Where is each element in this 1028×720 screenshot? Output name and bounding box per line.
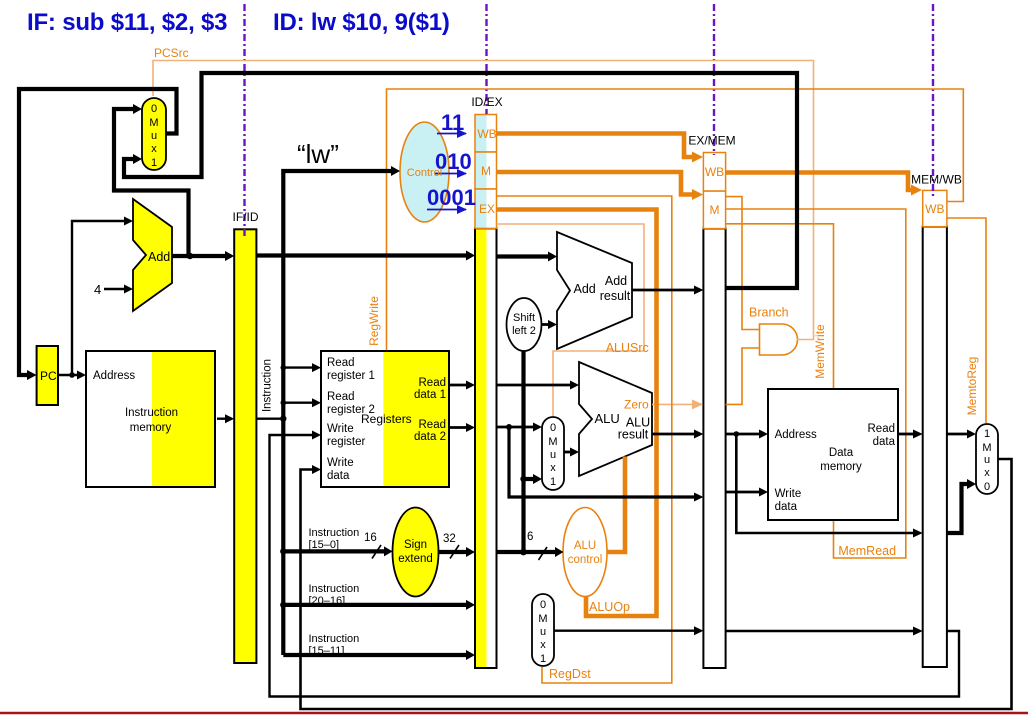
wire Add output PC+4 to IF/ID (thick) [172, 251, 234, 261]
svg-text:memory: memory [130, 422, 172, 434]
labels ALUSrc mux [548, 422, 557, 488]
svg-text:1: 1 [540, 653, 546, 665]
svg-text:u: u [540, 626, 546, 638]
junction sign extend row node [520, 549, 527, 556]
label EX box ID/EX [479, 202, 495, 216]
label Instruction (vertical) [262, 359, 274, 412]
svg-text:WB: WB [925, 202, 944, 216]
svg-text:Add: Add [605, 274, 627, 288]
svg-text:u: u [984, 454, 990, 466]
wire sign extend value up to shift left 2 (thick) [521, 351, 525, 552]
svg-text:memory: memory [820, 461, 862, 473]
svg-text:0001: 0001 [427, 185, 476, 210]
wire read register 1 [283, 363, 321, 372]
IF/ID pipeline register [234, 229, 256, 663]
svg-text:Instruction: Instruction [309, 527, 360, 539]
svg-text:Data: Data [829, 447, 854, 459]
svg-text:Address: Address [775, 429, 817, 441]
label Address (instruction memory) [93, 370, 135, 382]
junction PC output node [69, 372, 75, 378]
label PCSrc [154, 46, 189, 60]
svg-text:IF/ID: IF/ID [233, 210, 259, 224]
label ALUOp [589, 600, 630, 614]
junction instruction bus 15-0 [280, 548, 286, 554]
svg-text:register: register [327, 436, 366, 448]
control unit oval [400, 122, 449, 222]
label MEM/WB [911, 173, 962, 187]
svg-text:u: u [550, 449, 556, 461]
wire PC value up to Add input [72, 217, 133, 376]
wire Zero flag ALU to EX/MEM (pale) [652, 403, 702, 405]
junction ALU result node [734, 431, 740, 437]
svg-text:11: 11 [441, 110, 464, 135]
svg-text:Registers: Registers [361, 412, 412, 426]
svg-text:MEM/WB: MEM/WB [911, 173, 962, 187]
EX/MEM M control box [703, 191, 725, 229]
shift left 2 oval [507, 298, 542, 351]
label EX/MEM [688, 134, 735, 148]
svg-text:Write: Write [327, 457, 354, 469]
junction instruction bus read reg 1 [281, 365, 287, 371]
svg-text:RegDst: RegDst [549, 667, 591, 681]
wire instruction 15-11 to ID/EX (thick) [283, 650, 475, 660]
data memory block [768, 389, 898, 520]
main ALU [579, 362, 652, 476]
label 4 [94, 282, 101, 297]
svg-text:0: 0 [540, 599, 546, 611]
label WB box EX/MEM [705, 165, 724, 179]
label Branch [749, 306, 789, 320]
bus width slash 16 [372, 545, 381, 559]
label IF/ID [233, 210, 259, 224]
label Shift left 2 [512, 312, 536, 337]
PC+4 adder [133, 199, 172, 311]
svg-text:Shift: Shift [513, 312, 535, 324]
wire M control ID/EX to EX/MEM (thick orange, value 010) [497, 172, 704, 200]
net MemRead (EX/MEM M box to data memory bottom) [726, 209, 906, 558]
branch AND gate [760, 324, 798, 355]
svg-text:PC: PC [40, 369, 57, 383]
label WB box MEM/WB [925, 202, 944, 216]
wire instruction 20-16 to ID/EX (thick) [283, 600, 475, 610]
svg-text:0: 0 [984, 481, 990, 493]
label Control [407, 167, 442, 179]
net ALUSrc (pale, ID/EX EX box to ALUSrc mux) [497, 224, 645, 416]
label instruction 15-11 [309, 633, 360, 657]
svg-text:u: u [151, 130, 157, 142]
junction instruction bus 20-16 [280, 602, 286, 608]
wire EX/MEM write data to data memory [726, 488, 768, 497]
wire read data 2 to ID/EX [449, 423, 475, 432]
wire PC mux output feedback to PC (thick) [19, 89, 177, 380]
svg-text:RegWrite: RegWrite [367, 296, 381, 346]
bus width slash 32 [450, 545, 459, 559]
svg-text:0: 0 [550, 422, 556, 434]
svg-text:result: result [600, 289, 631, 303]
ID/EX M control box [475, 152, 497, 189]
svg-text:M: M [710, 203, 720, 217]
labels data memory [775, 423, 896, 513]
svg-text:x: x [550, 462, 556, 474]
svg-text:WB: WB [477, 127, 496, 141]
labels PC mux [149, 103, 158, 169]
control value 11 [441, 110, 464, 135]
svg-text:ID: lw $10, 9($1): ID: lw $10, 9($1) [273, 9, 450, 36]
EX/MEM WB control box [703, 153, 725, 192]
svg-text:Add: Add [148, 250, 170, 264]
label ID/EX [471, 95, 502, 109]
EX stage separator [713, 4, 715, 155]
junction instruction bus IF/ID tap [280, 416, 286, 422]
wire PC+4 ID/EX to branch adder (thick) [497, 252, 558, 262]
svg-text:Read: Read [419, 377, 447, 389]
svg-text:16: 16 [364, 532, 377, 544]
wire control value 11 into ID/EX WB (blue) [437, 133, 466, 135]
label Sign extend [398, 539, 433, 565]
IF stage separator (dash-dot purple) [243, 4, 245, 237]
svg-text:register 1: register 1 [327, 370, 375, 382]
wire WB control EX/MEM to MEM/WB (thick orange) [726, 173, 922, 196]
wire write register number feedback to registers [270, 431, 960, 697]
label ALUSrc [606, 341, 649, 355]
ID/EX pipeline register bar [475, 228, 497, 668]
label WB box ID/EX [477, 127, 496, 141]
net RegWrite (MEM/WB WB box to registers) [387, 89, 964, 350]
svg-text:MemRead: MemRead [838, 544, 896, 558]
sign extend oval [393, 508, 439, 597]
svg-text:Write: Write [327, 423, 354, 435]
wire MEM/WB ALU result to mux input 0 (thick) [947, 479, 976, 533]
svg-text:Read: Read [419, 419, 447, 431]
svg-text:x: x [984, 467, 990, 479]
svg-text:1: 1 [550, 476, 556, 488]
svg-text:left 2: left 2 [512, 325, 536, 337]
wire sign extend value ID/EX to ALU control (thick) with slash 6 [497, 547, 564, 557]
wire read register 2 [283, 398, 321, 407]
labels registers block [327, 357, 446, 482]
wire read data 2 ID/EX to ALUSrc mux input 0 [497, 423, 543, 432]
svg-text:Write: Write [775, 488, 802, 500]
instruction bus vertical (thick) [283, 166, 400, 655]
wire ALUSrc mux output to ALU [564, 448, 579, 457]
RegDst mux [532, 594, 554, 666]
svg-text:0: 0 [151, 103, 157, 115]
label RegDst [549, 667, 591, 681]
title ID instruction [273, 9, 450, 36]
svg-text:x: x [151, 143, 157, 155]
svg-text:Address: Address [93, 370, 135, 382]
ID/EX EX control box [475, 189, 497, 228]
svg-text:EX: EX [479, 202, 495, 216]
svg-text:PCSrc: PCSrc [154, 46, 189, 60]
registers block [321, 351, 449, 487]
svg-text:6: 6 [527, 531, 533, 543]
net ALUOp (thick orange, ID/EX EX box to ALU control) [497, 210, 657, 617]
labels RegDst mux [538, 599, 547, 665]
label lw annotation [297, 139, 339, 169]
wire instruction memory output to IF/ID [217, 414, 234, 423]
labels MemtoReg mux [982, 428, 991, 493]
svg-text:Read: Read [327, 357, 355, 369]
ALU control oval [563, 508, 607, 597]
svg-text:M: M [149, 117, 158, 129]
label Zero [624, 398, 649, 412]
svg-text:M: M [982, 442, 991, 454]
svg-text:Read: Read [868, 423, 896, 435]
wire sign extend output to ID/EX (thick) [439, 547, 476, 557]
svg-text:data: data [873, 436, 896, 448]
net PCSrc (pale, AND gate output to PC mux) [153, 61, 814, 340]
ID/EX WB control box [475, 115, 497, 153]
wire ALU result to EX/MEM [652, 430, 703, 439]
svg-text:EX/MEM: EX/MEM [688, 134, 735, 148]
wire control value 010 into ID/EX M (blue) [435, 173, 466, 175]
wire EX/MEM ALU result to data memory address [726, 430, 768, 439]
svg-text:Instruction: Instruction [125, 407, 178, 419]
svg-text:x: x [540, 639, 546, 651]
wire instruction 15-0 to sign extend (thick) [283, 546, 392, 556]
junction PC+4 node [187, 253, 193, 259]
wire PC+4 to PC mux input 0 (thick) [114, 104, 190, 256]
svg-text:ALU: ALU [574, 540, 596, 552]
junction read data 2 node [506, 424, 512, 430]
ALUSrc mux [542, 417, 564, 490]
svg-text:M: M [548, 436, 557, 448]
wire PC to instruction memory address [58, 371, 86, 380]
MEM/WB pipeline register bar [923, 227, 947, 667]
wire PC+4 IF/ID to ID/EX (thick) [256, 251, 475, 261]
svg-text:Instruction: Instruction [309, 583, 360, 595]
svg-text:MemtoReg: MemtoReg [965, 357, 979, 416]
label instruction 15-0 [309, 527, 360, 551]
svg-text:ALUSrc: ALUSrc [606, 341, 649, 355]
svg-text:1: 1 [984, 428, 990, 440]
label RegWrite (vertical) [367, 296, 381, 346]
wire read data 1 ID/EX to ALU [497, 381, 580, 390]
svg-text:Read: Read [327, 391, 355, 403]
svg-text:[15–0]: [15–0] [309, 539, 340, 551]
svg-text:extend: extend [398, 553, 433, 565]
wire MEM/WB read data to mux input 1 [947, 430, 976, 439]
svg-text:[15–11]: [15–11] [309, 645, 345, 657]
junction instruction bus read reg 2 [281, 400, 287, 406]
MemtoReg mux [976, 424, 998, 494]
PC source mux [142, 98, 166, 170]
svg-text:MemWrite: MemWrite [813, 324, 827, 379]
branch target adder (Add result) [557, 232, 632, 349]
wire control value 0001 into ID/EX EX (blue) [427, 209, 466, 211]
title IF instruction [27, 9, 227, 36]
label MemWrite (vertical) [813, 324, 827, 379]
svg-text:1: 1 [151, 157, 157, 169]
wire constant 4 into Add [104, 285, 133, 294]
wire shift left 2 output to branch adder [542, 320, 558, 329]
junction sign extend to mux node [520, 476, 526, 482]
wire sign extend value to ALUSrc mux input 1 (thick) [524, 474, 543, 484]
bottom red rule [0, 712, 1028, 714]
svg-text:Instruction: Instruction [262, 359, 274, 412]
EX/MEM pipeline register bar [703, 229, 725, 668]
wire data memory read data to MEM/WB [898, 430, 923, 439]
wire MemtoReg mux output feedback to registers write data [301, 459, 1012, 709]
wire ALU control output to ALU (thick orange) [607, 457, 625, 553]
net MemtoReg (MEM/WB WB box to mux) [947, 218, 986, 423]
bus width slash 6 [539, 547, 548, 560]
label ALU (adder) texts [574, 274, 631, 303]
svg-text:Zero: Zero [624, 398, 649, 412]
net MemWrite (EX/MEM M box to data memory top) [726, 224, 834, 388]
label MemtoReg (vertical) [965, 357, 979, 416]
instruction memory [86, 351, 215, 487]
ID stage separator [485, 4, 487, 114]
svg-text:ALUOp: ALUOp [589, 600, 630, 614]
control value 0001 [427, 185, 476, 210]
svg-text:M: M [538, 613, 547, 625]
svg-text:32: 32 [443, 533, 456, 545]
label ALU texts [595, 411, 651, 442]
svg-text:result: result [618, 428, 649, 442]
label 32 [443, 533, 456, 545]
label MemRead [838, 544, 896, 558]
MEM/WB WB control box [923, 190, 947, 226]
wire read data 2 down to EX/MEM write data [509, 427, 703, 502]
svg-text:Sign: Sign [404, 539, 427, 551]
svg-text:data: data [775, 501, 798, 513]
label instruction 20-16 [309, 583, 360, 607]
wire register number EX/MEM to MEM/WB [726, 627, 923, 636]
svg-text:data: data [327, 470, 350, 482]
svg-text:“lw”: “lw” [297, 139, 339, 169]
wire ALU result bypass down to MEM/WB [736, 434, 922, 538]
label M box ID/EX [481, 164, 491, 178]
wire IF/ID instruction output to bus [256, 418, 283, 420]
svg-text:Branch: Branch [749, 306, 789, 320]
svg-text:4: 4 [94, 282, 101, 297]
wire branch target EX/MEM to PC mux input 1 (thick) [124, 73, 797, 288]
svg-text:M: M [481, 164, 491, 178]
PC register [37, 346, 58, 405]
control value 010 [435, 149, 472, 174]
svg-text:IF: sub $11, $2, $3: IF: sub $11, $2, $3 [27, 9, 227, 36]
label 6 [527, 531, 533, 543]
label ALU control [568, 540, 603, 566]
net Branch (EX/MEM M box to AND gate) [726, 197, 759, 330]
svg-text:Control: Control [407, 167, 442, 179]
wire branch adder result to EX/MEM [632, 286, 703, 295]
svg-text:[20–16]: [20–16] [309, 595, 346, 607]
wire WB control ID/EX to EX/MEM (thick orange, value 11) [497, 134, 704, 163]
svg-text:WB: WB [705, 165, 724, 179]
label Add [148, 250, 170, 264]
svg-text:ALU: ALU [595, 411, 620, 426]
label PC [40, 369, 57, 383]
wire RegDst mux output to EX/MEM [554, 626, 703, 635]
net RegDst (ID/EX EX box to RegDst mux) [497, 196, 672, 683]
wire read data 1 to ID/EX [449, 381, 475, 390]
label Instruction memory [125, 407, 178, 434]
label 16 [364, 532, 377, 544]
wire Zero flag EX/MEM to AND gate [726, 348, 759, 404]
svg-text:ID/EX: ID/EX [471, 95, 502, 109]
svg-text:control: control [568, 554, 603, 566]
MEM stage separator [932, 4, 934, 196]
svg-text:Add: Add [574, 282, 596, 296]
svg-text:data 1: data 1 [414, 389, 446, 401]
svg-text:Instruction: Instruction [309, 633, 360, 645]
svg-text:data 2: data 2 [414, 431, 446, 443]
label M box EX/MEM [710, 203, 720, 217]
